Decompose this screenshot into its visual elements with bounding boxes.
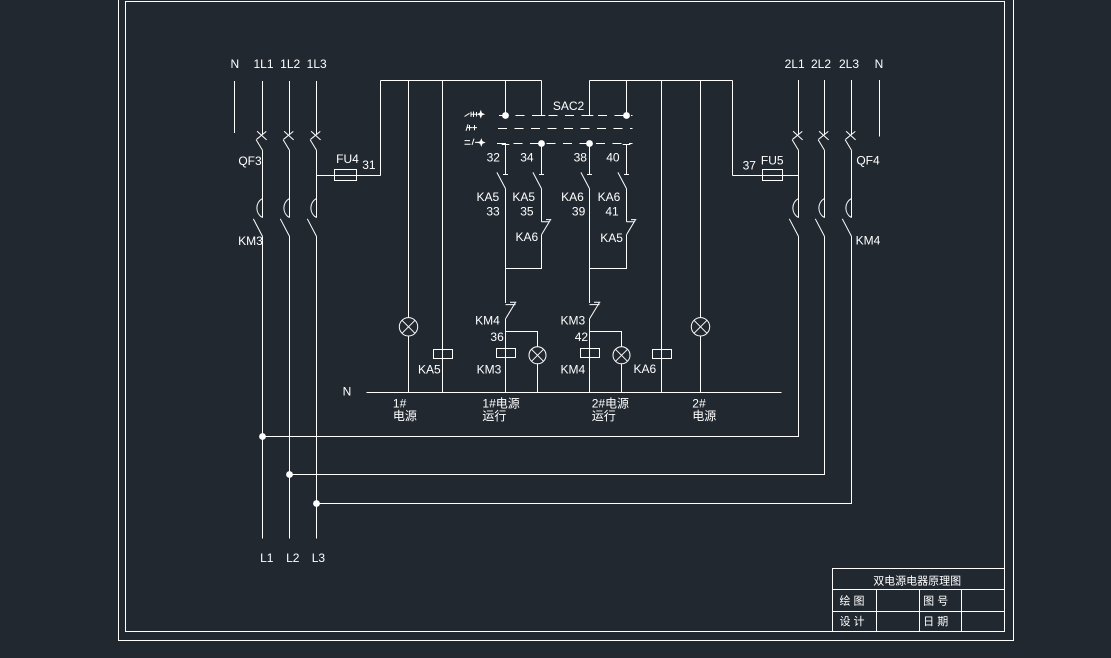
svg-text:2L1: 2L1 — [785, 57, 805, 71]
svg-text:双电源电器原理图: 双电源电器原理图 — [873, 574, 961, 588]
wire lamp HL4 to N bus — [700, 336, 702, 393]
svg-text:QF3: QF3 — [238, 154, 262, 168]
wire 2L1 down and across — [263, 236, 799, 436]
svg-text:SAC2: SAC2 — [553, 99, 585, 113]
svg-text:FU4: FU4 — [336, 152, 359, 166]
svg-text:KA6: KA6 — [561, 190, 584, 204]
wire lamp HL2 tee — [506, 332, 538, 347]
contactor KM3 pole 3 — [307, 150, 316, 538]
lamp HL4 (2#电源) — [691, 318, 709, 336]
svg-text:KM3: KM3 — [238, 234, 263, 248]
svg-text:设 计: 设 计 — [839, 615, 864, 628]
breaker QF4 pole 2 (2L2) — [818, 80, 829, 150]
lamp HL1 (1#电源) — [399, 318, 417, 336]
fuse FU5 wire — [733, 175, 799, 177]
lamp HL2 (1#电源运行) — [529, 347, 546, 364]
wire col2 middle — [541, 189, 543, 222]
contactor KM4 pole 2 — [815, 150, 824, 236]
svg-text:KA6: KA6 — [598, 190, 621, 204]
svg-text:KM3: KM3 — [561, 314, 586, 328]
svg-text:35: 35 — [520, 204, 534, 218]
contact KA6 38-39 stub — [589, 144, 591, 175]
svg-text:KM3: KM3 — [477, 363, 502, 377]
fuse FU4 wire — [317, 175, 381, 177]
svg-text:41: 41 — [605, 204, 619, 218]
svg-text:运行: 运行 — [592, 409, 616, 423]
SAC2 contact dot row1 col4 — [623, 112, 630, 119]
border frame outer — [119, 0, 1014, 641]
wire 2L3 down and across — [317, 236, 852, 503]
contact KA6 38-39 — [581, 172, 592, 188]
contact KA5 32-33 stub — [505, 145, 507, 175]
svg-text:2L3: 2L3 — [839, 57, 859, 71]
contact KA5 32-33 — [497, 172, 508, 188]
wire KA5 coil branch — [442, 81, 444, 393]
contact KA6 40-41 — [618, 172, 629, 188]
fuse FU4 body — [335, 170, 357, 181]
N bus — [367, 392, 782, 394]
svg-text:1L2: 1L2 — [280, 57, 300, 71]
wire lamp HL1 to N bus — [408, 336, 410, 393]
relay coil KA5 — [434, 350, 453, 359]
wire lamp HL4 branch — [700, 81, 702, 318]
wire FU4 riser — [380, 81, 382, 176]
breaker QF3 pole 3 (1L3) — [310, 81, 321, 150]
wire col1 contact to coil — [505, 319, 507, 393]
control bus left — [381, 80, 542, 82]
wire KA6 coil branch — [661, 81, 663, 393]
wire SAC2 column 4 drop — [626, 81, 628, 114]
title block column line 2 — [919, 590, 921, 632]
SAC2 terminal tick row1 col2 — [538, 115, 546, 117]
control bus right — [590, 80, 733, 82]
wire SAC2 column 2 drop — [541, 81, 543, 116]
breaker QF4 pole 3 (2L3) — [845, 80, 856, 150]
svg-text:FU5: FU5 — [761, 154, 784, 168]
wire lamp HL3 to N bus — [621, 364, 623, 393]
svg-text:KM4: KM4 — [475, 314, 500, 328]
contact KM4 36 (interlock) — [506, 302, 517, 319]
svg-text:电源: 电源 — [692, 409, 716, 423]
breaker QF3 pole 2 (1L2) — [283, 81, 294, 150]
wire 2L2 down and across — [290, 236, 825, 474]
svg-text:36: 36 — [490, 330, 504, 344]
junction dot L1 — [259, 433, 266, 440]
title block column line 3 — [961, 590, 963, 632]
svg-text:KA5: KA5 — [418, 363, 441, 377]
contactor KM3 pole 2 — [280, 150, 289, 538]
svg-text:1L3: 1L3 — [307, 57, 327, 71]
contact KM3 42 (interlock) — [590, 302, 601, 319]
contactor KM4 pole 1 — [789, 150, 798, 236]
svg-text:2L2: 2L2 — [811, 57, 831, 71]
border frame inner — [126, 2, 1005, 632]
title block row line 1 — [833, 589, 1005, 591]
svg-text:绘 图: 绘 图 — [839, 594, 864, 608]
wire SAC2 column 1 drop — [505, 81, 507, 114]
svg-text:KA6: KA6 — [516, 230, 539, 244]
svg-text:电源: 电源 — [393, 409, 417, 423]
svg-text:N: N — [230, 57, 239, 71]
wire col4 middle — [626, 189, 628, 222]
wire col3 contact to coil — [589, 319, 591, 393]
wire lamp HL2 to N bus — [537, 364, 539, 393]
switch SAC2 row 3 dashed — [497, 143, 633, 145]
svg-text:KA5: KA5 — [600, 231, 623, 245]
switch SAC2 row 1 dashed — [499, 115, 633, 117]
wire col3 down to KM3 contact — [589, 189, 591, 303]
svg-text:N: N — [875, 57, 884, 71]
svg-text:L3: L3 — [312, 551, 326, 565]
svg-text:1L1: 1L1 — [253, 57, 273, 71]
wire col2 to tee — [506, 235, 542, 269]
wire N left — [234, 81, 236, 133]
svg-text:日 期: 日 期 — [923, 615, 948, 628]
SAC2 contact dot row1 col1 — [502, 112, 509, 119]
svg-text:34: 34 — [520, 150, 534, 164]
relay coil KM4 — [581, 349, 600, 358]
contact KA6 (col2) — [542, 220, 552, 235]
contact KA6 40-41 stub — [626, 145, 628, 175]
SAC2 contact dot row3 col3 — [586, 140, 593, 147]
svg-text:39: 39 — [572, 204, 586, 218]
title block row line 2 — [833, 611, 1005, 613]
relay coil KM3 — [497, 349, 516, 358]
junction dot L3 — [313, 500, 320, 507]
svg-text:KM4: KM4 — [560, 363, 585, 377]
wire col4 to tee — [590, 235, 627, 269]
wire col1 down to KM4 contact — [505, 189, 507, 303]
wire N right — [879, 80, 881, 137]
svg-text:38: 38 — [574, 150, 588, 164]
contactor KM3 pole 1 — [253, 150, 262, 538]
wire SAC2 column 3 drop — [589, 81, 591, 116]
lamp HL3 (2#电源运行) — [613, 347, 630, 364]
breaker QF3 pole 1 (1L1) — [256, 81, 267, 150]
wire FU5 riser — [732, 81, 734, 176]
svg-text:33: 33 — [486, 204, 500, 218]
title block outline — [833, 569, 1005, 632]
svg-text:40: 40 — [606, 150, 620, 164]
contact KA5 34-35 stub — [541, 144, 543, 175]
svg-text:L2: L2 — [286, 551, 300, 565]
contact KA5 (col4) — [627, 220, 637, 235]
junction dot L2 — [286, 471, 293, 478]
SAC2 position symbol row2 — [466, 124, 477, 131]
SAC2 position symbol row3 — [465, 139, 480, 145]
breaker QF4 pole 1 (2L1) — [792, 80, 803, 150]
fuse FU5 body — [763, 170, 783, 181]
svg-text:图 号: 图 号 — [923, 595, 948, 608]
svg-text:QF4: QF4 — [856, 154, 880, 168]
switch SAC2 row 2 dashed — [498, 128, 633, 130]
contact KA5 34-35 — [533, 172, 544, 188]
svg-text:31: 31 — [362, 158, 376, 172]
wire lamp HL1 branch — [408, 81, 410, 318]
SAC2 terminal tick row1 col3 — [586, 115, 594, 117]
svg-text:L1: L1 — [260, 551, 274, 565]
svg-text:运行: 运行 — [482, 409, 506, 423]
contactor KM4 pole 3 — [842, 150, 851, 236]
svg-text:32: 32 — [487, 150, 501, 164]
svg-text:KA5: KA5 — [477, 190, 500, 204]
svg-text:KA5: KA5 — [512, 190, 535, 204]
SAC2 position symbol row1 — [465, 112, 477, 118]
wire lamp HL3 tee — [590, 332, 622, 347]
title block column line 1 — [876, 590, 878, 632]
svg-text:KA6: KA6 — [634, 362, 657, 376]
relay coil KA6 — [653, 350, 672, 359]
svg-text:KM4: KM4 — [856, 234, 881, 248]
SAC2 contact dot row3 col2 — [538, 140, 545, 147]
svg-text:37: 37 — [743, 159, 757, 173]
svg-text:42: 42 — [575, 330, 589, 344]
svg-text:N: N — [343, 385, 352, 399]
SAC2 terminal tick row3 col1 — [502, 144, 510, 146]
SAC2 terminal tick row3 col4 — [623, 144, 631, 146]
